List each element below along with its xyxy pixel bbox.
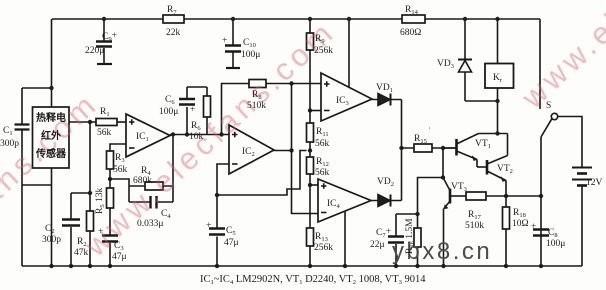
svg-text:VD3: VD3 [437,59,454,70]
wire IC2 inverting input to C5 [217,164,229,195]
resistor R7 [163,15,184,23]
node VT3 emitter rail [441,264,445,268]
svg-text:R15: R15 [414,134,427,145]
wire IC3 power drop [348,19,350,87]
node R3/R4/R5 junction [108,177,112,181]
wire top supply rail [52,18,540,20]
node rail VD3 [463,17,467,21]
wire bias from C5 node to divider [217,151,307,196]
capacitor C5 [209,195,225,266]
op-amp IC2 [229,125,274,174]
svg-text:100μ: 100μ [546,239,565,249]
wire R8 feedback [222,84,322,135]
node R18 bottom rail [504,264,508,268]
node R2 bottom rail [88,264,92,268]
svg-text:R14: R14 [405,5,419,16]
battery 12V [572,168,592,267]
svg-text:+: + [222,36,227,46]
resistor R18 vertical [503,196,510,266]
svg-text:680k: 680k [133,176,152,186]
node rail relay [495,17,499,21]
wire IC1 inverting input [110,144,126,151]
svg-text:R16 1.5M: R16 1.5M [405,218,416,254]
svg-text:+: + [206,221,211,231]
node feedback join [171,132,175,136]
diode VD2 [371,195,402,207]
node R16 bottom rail [415,264,419,268]
svg-text:IC2: IC2 [242,147,255,158]
node sensor bottom rail [49,264,53,268]
wire left drop to sensor [51,19,53,107]
node C8 top [539,194,543,198]
resistor R16 vertical [414,214,421,266]
resistor R4 [145,182,163,190]
wire C7 branch [396,213,418,215]
svg-text:+: + [98,227,103,237]
node R17/VT2 emitter [504,194,508,198]
svg-text:256k: 256k [314,243,333,253]
op-amp IC3 [321,73,372,121]
op-amp IC4 [318,179,371,222]
wire sensor bottom to ground rail [51,168,53,266]
svg-text:300p: 300p [0,139,19,149]
svg-text:100μ: 100μ [159,107,178,117]
svg-text:0.033μ: 0.033μ [137,219,163,229]
wire switch to battery [558,117,582,168]
node R13 bottom rail [308,264,312,268]
capacitor C2 [62,193,90,266]
node relay bottom [495,99,499,103]
resistor R8 [249,80,266,88]
svg-text:C10: C10 [243,38,256,49]
wire collectors to relay [479,133,508,135]
svg-text:R12: R12 [316,157,329,168]
node R8 column join [219,132,223,136]
svg-text:12V: 12V [586,178,603,188]
node C6 join [185,132,189,136]
svg-text:VT1: VT1 [475,139,491,150]
wire IC3 inverting input [310,110,321,112]
resistor R9 vertical [307,19,314,111]
svg-text:红外: 红外 [41,129,61,142]
svg-text:56k: 56k [113,165,128,175]
svg-text:+: + [531,222,536,232]
wire lower jog to sensor bottom [22,184,52,186]
node C2 bottom rail [69,264,73,268]
svg-text:510k: 510k [465,221,484,231]
resistor R12 vertical [307,151,314,186]
wire IC2 output [274,150,292,152]
capacitor C7 [388,214,404,266]
node IC4 noninverting input [308,183,312,187]
resistor R6 vertical [204,87,211,135]
svg-text:10k: 10k [189,132,204,142]
node relay column collector [495,131,499,135]
wire timing branch [418,178,444,215]
svg-text:IC4: IC4 [327,199,341,210]
svg-text:100μ: 100μ [241,50,260,60]
wire diode OR junction [401,100,403,201]
diode VD1 [372,94,402,106]
node R2/C2 junction [88,191,92,195]
svg-text:+: + [190,105,195,115]
svg-text:510k: 510k [247,101,266,111]
resistor R2 vertical [87,122,94,266]
node C7 bottom rail [394,264,398,268]
wire signal column to IC4 [292,84,319,214]
svg-text:56k: 56k [97,128,112,138]
svg-text:56k: 56k [315,168,330,178]
node sensor output junction [88,120,92,124]
capacitor C3 [102,236,118,267]
svg-text:热释电: 热释电 [36,111,66,124]
node IC3 inverting input [308,108,312,112]
resistor R1 [96,119,126,126]
node C3 bottom rail [108,264,112,268]
op-amp IC1 [126,114,170,157]
wire IC1 output to IC2 [170,134,229,136]
resistor R15 [402,144,456,152]
resistor R5 vertical [107,179,114,235]
node IC4 ground rail [343,264,347,268]
svg-text:C6: C6 [165,95,175,106]
svg-text:R18: R18 [513,208,526,219]
node VT3 collector [441,175,445,179]
sensor box (pyroelectric infrared sensor) [33,107,70,168]
node R15/VT3 junction [441,146,445,150]
resistor R3 vertical [107,151,114,179]
svg-text:VT3: VT3 [451,182,467,193]
svg-text:22k: 22k [166,28,181,38]
svg-text:R17: R17 [468,210,482,221]
capacitor C8 [533,230,549,236]
svg-text:C8: C8 [548,228,558,239]
svg-text:R3: R3 [115,153,125,164]
svg-text:47k: 47k [74,248,89,258]
svg-text:56k: 56k [315,139,330,149]
svg-text:传感器: 传感器 [35,147,67,160]
node rail IC3 power [347,17,351,21]
node rail R9 [308,17,312,21]
node IC2 output [289,148,293,152]
svg-text:R11: R11 [316,127,329,138]
svg-text:C9+: C9+ [102,31,117,43]
node R11/R12 junction [308,148,312,152]
capacitor C6 [179,87,195,135]
svg-text:Kr: Kr [493,73,503,84]
diode VD3 [458,19,472,101]
svg-text:C1: C1 [3,126,13,137]
resistor R11 vertical [307,111,314,151]
svg-text:˙: ˙ [428,127,431,137]
svg-text:47μ: 47μ [112,252,127,262]
wire R4 branch [110,135,173,203]
svg-text:256k: 256k [314,46,333,56]
svg-text:680Ω: 680Ω [400,28,421,38]
wire IC4 ground drop [344,211,346,266]
node C5 junction [215,193,219,197]
relay K [485,19,514,101]
wire IC4 noninverting input [310,184,318,186]
capacitor C9 [96,19,112,64]
transistor VT1 [443,134,479,168]
svg-text:10Ω: 10Ω [512,219,529,229]
resistor R17 [466,192,506,200]
svg-text:VD2: VD2 [377,177,394,188]
svg-text:IC3: IC3 [336,96,349,107]
svg-text:300p: 300p [42,235,61,245]
node junction sensor top [49,86,53,90]
node C7/R16 junction [415,212,419,216]
wire bottom ground rail [22,265,582,267]
capacitor C10 [225,19,241,68]
svg-text:IC1: IC1 [136,132,149,143]
svg-text:C2: C2 [45,224,55,235]
wire C6 top to R6 top [187,86,207,88]
node rail C10 [231,17,235,21]
capacitor C1 [15,88,30,266]
svg-text:www.elecfans.com: www.elecfans.com [514,0,606,116]
node C8 bottom rail [539,264,543,268]
resistor R13 vertical [307,185,314,266]
node rail C9 [102,17,106,21]
svg-text:S: S [546,101,551,111]
transistor VT3 [443,178,466,267]
resistor R14 [402,15,425,23]
node C5 bottom rail [215,264,219,268]
svg-text:C5: C5 [226,226,236,237]
wire VT2 emitter to C8 [506,195,541,197]
svg-text:220μ: 220μ [85,46,104,56]
node R8 right / IC2 out column [289,81,293,85]
capacitor C4 [151,196,157,209]
switch S [540,19,558,266]
svg-text:R1: R1 [100,107,110,118]
svg-text:IC1~IC4 LM2902N, VT1 D2240, VT: IC1~IC4 LM2902N, VT1 D2240, VT2 1008, VT… [200,274,426,286]
wire sensor output [69,121,96,123]
svg-text:VT2: VT2 [497,164,513,175]
node VD junction R15 [399,146,403,150]
svg-text:47μ: 47μ [224,238,239,248]
svg-text:VD1: VD1 [376,83,393,94]
wire VT3 collector column [442,148,444,178]
svg-text:R5 13k: R5 13k [95,188,106,214]
svg-text:R7: R7 [167,5,177,16]
wire VD3/relay bottom join [465,101,498,134]
transistor VT2 [477,134,508,197]
svg-text:R13: R13 [315,232,328,243]
wire jog C1 to sensor column [22,87,52,89]
svg-text:22μ: 22μ [370,240,385,250]
